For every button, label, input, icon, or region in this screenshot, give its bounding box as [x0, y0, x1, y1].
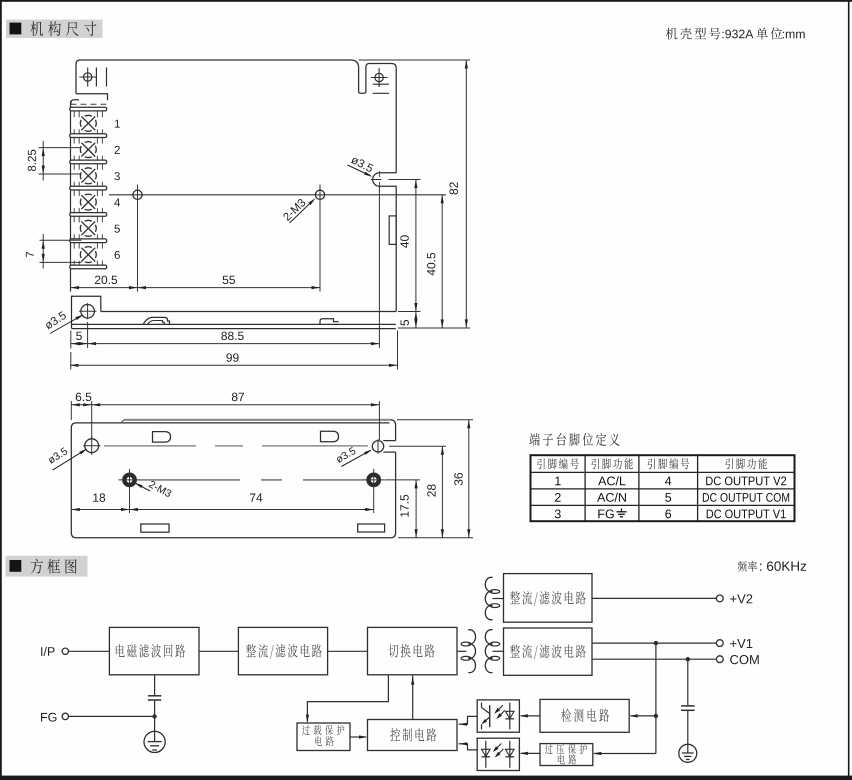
block: rectifier/filter V1: [504, 628, 593, 675]
protective earth symbol (left): [154, 716, 156, 731]
block: detection circuit 检测电路: [540, 699, 629, 732]
output capacitor on COM: [687, 659, 689, 706]
terminal block hidden tick pairs: [73, 111, 75, 118]
wire to transformer primary: [457, 650, 466, 652]
protective earth symbol (right): [679, 744, 697, 762]
dim 8.25 (terminal pitch): [39, 147, 82, 149]
bottom rectangular slots: [141, 524, 169, 532]
D-slots (bottom view): [153, 432, 171, 443]
base plate bent tab (simple): [320, 319, 339, 325]
detection to opto1 wire: [521, 715, 540, 717]
2-M3 label (bottom view): [148, 480, 172, 497]
OVP to opto2 wire: [521, 752, 540, 754]
base plate dia3.5 hole: [81, 305, 95, 319]
hidden slot lines right of left ear hole: [95, 68, 97, 87]
base plate with left foot square: [72, 296, 101, 328]
right vertical dims 82 / 40.5 / 40 / 5: [359, 59, 470, 61]
optocoupler 2 (OVP): [477, 738, 519, 770]
bottom view chassis outline: [71, 420, 395, 538]
control to opto2 wires: [459, 744, 478, 750]
dims 18 / 74: [129, 491, 131, 513]
dia3.5 hole left (bottom view): [85, 439, 99, 453]
block: rectifier/filter 整流/滤波电路: [238, 627, 327, 674]
center line through dia3.5 holes: [104, 445, 196, 447]
switching to overload protection wire: [307, 675, 388, 721]
FG input terminal: [41, 713, 47, 722]
terminal screws 1-6: [94, 120, 97, 127]
output +V1: [592, 642, 716, 644]
terminal block left edge (and ext line): [70, 101, 72, 292]
dims 17.5 / 28 / 36: [385, 479, 420, 481]
section header: 方框图 (block diagram): [6, 556, 88, 577]
block: switching circuit 切换电路: [368, 627, 458, 674]
dim 7: [40, 239, 82, 241]
2-M3 label and leader: [282, 198, 306, 221]
transformer primary winding: [468, 630, 475, 673]
wire: [328, 650, 368, 652]
M3 knurled holes (bottom view): [123, 473, 137, 487]
base plate bent tab (complex): [143, 317, 169, 324]
dim line 99: [70, 364, 398, 366]
wire: [199, 650, 238, 652]
cover edge band (bottom view top): [124, 419, 391, 421]
optocoupler 1 (feedback): [477, 700, 519, 732]
center line through M3 holes: [138, 479, 240, 481]
section header: 机构尺寸 (mechanism dimensions): [6, 20, 103, 38]
transformer secondary winding (V1): [485, 630, 492, 673]
block: rectifier/filter V2: [504, 574, 593, 623]
control to switching wire: [412, 675, 414, 719]
dim line 20.5 / 55: [71, 287, 321, 289]
secondary tap wires: [493, 650, 504, 652]
table title: 端子台脚位定义: [529, 433, 540, 446]
right notch with half hole: [383, 440, 395, 442]
Y-cap from EMI filter: [154, 675, 156, 696]
I/P input terminal: [41, 647, 42, 656]
top-right label: 机壳型号:932A 单位:mm: [666, 28, 678, 40]
terminal block top dashed edges: [71, 103, 107, 105]
side panel vertical slot: [389, 216, 396, 245]
FG earth symbol in table: [621, 509, 623, 512]
overload to control wire: [350, 736, 366, 738]
opto1 to control wires: [459, 716, 478, 724]
dia3.5 label for base plate hole: [44, 311, 67, 330]
transformer secondary winding (V2): [485, 577, 492, 619]
right ear hidden edge lines: [373, 83, 389, 85]
output +V2: [592, 597, 716, 599]
frequency label: [738, 561, 747, 572]
dia3.5 label left: [47, 447, 68, 464]
wire to OVP circuit with arrow: [594, 753, 656, 755]
left ear mounting hole: [84, 73, 92, 81]
wire to detection circuit with arrow: [631, 715, 656, 717]
terminal divider bars: [70, 107, 107, 111]
block: overload protection 过载保护电路: [297, 723, 350, 751]
side half-round mounting tab with hole: [373, 173, 397, 312]
cover left ear bottom edge: [76, 94, 108, 101]
right ear mounting hole: [375, 73, 383, 81]
dim line 5 / 88.5: [71, 343, 379, 345]
block: control circuit 控制电路: [368, 720, 458, 751]
terminal pin definition table: [531, 455, 795, 521]
chassis cover outline (top view): [76, 60, 396, 173]
dia3.5 label right: [335, 447, 356, 464]
feedback vertical from +V1: [655, 643, 657, 753]
dims 6.5 / 87: [70, 401, 72, 420]
block: EMI filter 电磁滤波回路: [109, 627, 199, 674]
terminal block top-left rounded corner: [71, 100, 79, 105]
output COM: [592, 658, 716, 660]
block: over-voltage protection 过压保护电路: [540, 744, 593, 766]
dia3.5 label for side tab hole: [350, 155, 374, 172]
2-M3 tapped holes row (top view): [109, 194, 446, 196]
